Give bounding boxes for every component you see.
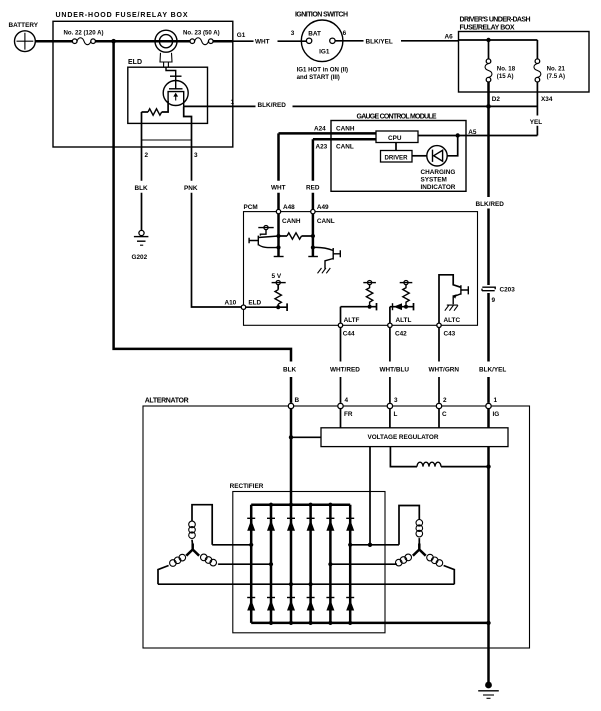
svg-text:B: B [295,397,300,404]
svg-text:X34: X34 [541,96,553,103]
CANH internal line + terminator [274,214,284,257]
svg-text:DRIVER: DRIVER [385,154,409,161]
svg-text:CPU: CPU [388,135,402,142]
svg-text:WHT/RED: WHT/RED [330,366,360,373]
svg-text:C42: C42 [395,331,407,338]
regulator sense wire to stator phase [369,447,371,545]
ground G202 [132,230,149,261]
svg-text:No. 21: No. 21 [547,66,566,73]
wires terminals to regulator [341,409,440,428]
terminal 4 FR [338,397,353,418]
wire WHT to ignition [233,39,307,46]
right stator coil right branch [427,554,455,584]
diode pair column 6 [346,505,354,623]
phase node col6 [348,543,352,547]
fuse No.22 (120 A) [64,29,104,44]
ELD leg to terminal 3 [184,106,192,147]
node A24 / CANH wire [279,126,377,134]
DRIVER box [381,143,413,163]
svg-text:(15 A): (15 A) [497,73,514,80]
svg-text:BLK/RED: BLK/RED [476,201,505,208]
CAN termination resistor [279,233,313,239]
diode pair column 1 [247,505,255,623]
svg-text:2: 2 [443,397,447,404]
terminal B [288,397,299,408]
svg-text:and START (III): and START (III) [297,74,340,81]
wire PNK from ELD 3 to PCM A10 [184,147,242,307]
wire CPU to A5 and YEL corner [418,135,537,137]
svg-text:C203: C203 [500,287,516,294]
svg-text:RECTIFIER: RECTIFIER [230,483,264,490]
svg-text:D2: D2 [492,96,501,103]
diode pair column 4 [307,505,315,623]
svg-text:3: 3 [291,30,295,37]
CANH driver transistor Q [249,226,278,248]
alternator box [143,398,530,648]
node A23 / CANL wire [313,139,376,150]
svg-text:A10: A10 [225,300,237,307]
svg-text:WHT/BLU: WHT/BLU [380,366,410,373]
svg-text:C: C [442,411,447,418]
svg-text:PCM: PCM [244,204,258,211]
node D2 [489,82,501,103]
top bus junction nodes [269,503,333,507]
junction node indicator tap [456,133,460,137]
terminal A48 [276,204,301,225]
gauge control module box [331,113,466,191]
phase wire left stator to column2 [219,563,271,565]
svg-text:A49: A49 [317,204,329,211]
svg-text:A24: A24 [314,126,326,133]
svg-text:YEL: YEL [530,119,543,126]
alternator case ground [478,648,499,698]
ALTC driver transistor Q [439,275,468,323]
wire BLK/RED pin 1 to D2 junction [208,99,539,109]
svg-text:G202: G202 [132,254,148,261]
svg-text:IG1 HOT in ON (II): IG1 HOT in ON (II) [297,66,348,73]
svg-text:3: 3 [394,397,398,404]
wire WHT/GRN C43 to C [429,328,460,403]
svg-text:C44: C44 [343,331,355,338]
svg-text:BLK: BLK [135,185,149,192]
svg-text:BLK: BLK [283,367,297,374]
ELD current-sensor toroid [155,30,177,67]
phase wire left stator to column1 [212,544,251,546]
CANL receiver transistor Q [313,247,340,273]
terminal A10 / ELD input [225,300,288,312]
diode pair column 3 [287,505,295,623]
junction node D2 trunk [486,104,491,109]
node X34 + wire YEL [530,82,553,136]
svg-text:CANH: CANH [336,126,355,133]
svg-text:(7.5 A): (7.5 A) [547,73,565,80]
terminal 3 L [387,397,398,418]
phase wire column6 to right stator [350,544,399,546]
left stator staircase wire [192,505,212,545]
svg-text:INDICATOR: INDICATOR [421,184,456,191]
left stator coil right branch [201,554,219,566]
svg-text:CANL: CANL [317,218,335,225]
wire RED CANL down to PCM [306,139,320,209]
wire fuse22 to fuse23 [95,40,190,43]
field coil L rotor [390,447,488,467]
terminal C42 [388,317,412,337]
terminal C43 [437,317,461,337]
svg-text:FUSE/RELAY BOX: FUSE/RELAY BOX [460,24,515,31]
svg-text:ALTF: ALTF [344,317,360,324]
svg-text:5 V: 5 V [272,273,282,280]
rectifier bottom bus [251,622,488,625]
wire BLK from ELD 2 to G202 [135,147,149,230]
svg-text:BLK/RED: BLK/RED [258,102,287,109]
svg-text:ELD: ELD [128,59,142,66]
rectifier box [230,483,385,633]
terminal 1 IG [486,397,499,418]
phase node col1 [249,543,253,547]
fuse No.18 (15 A) [485,40,516,82]
junction node B tap [289,435,293,439]
svg-text:IG1: IG1 [319,49,330,56]
svg-text:A5: A5 [468,129,477,136]
phase node col2 [269,562,273,566]
wire battery to fuse box [35,40,72,43]
svg-text:6: 6 [343,30,347,37]
svg-text:C43: C43 [444,331,456,338]
diode pair column 5 [326,505,334,623]
svg-text:No. 23 (50 A): No. 23 (50 A) [183,29,220,36]
svg-text:BLK/YEL: BLK/YEL [366,38,393,45]
ignition switch [291,12,348,81]
charging system indicator lamp [412,138,458,192]
battery [9,22,39,52]
svg-text:PNK: PNK [184,185,198,192]
wire BLK/YEL ignition to A6 [335,38,458,45]
svg-text:A23: A23 [316,143,328,150]
wire WHT/RED C44 to FR [330,328,360,403]
svg-text:A48: A48 [283,204,295,211]
trunk BLK/RED label [476,103,505,285]
svg-text:A6: A6 [445,33,454,40]
svg-text:BLK/YEL: BLK/YEL [479,367,506,374]
diode pair column 2 [267,505,275,623]
svg-text:VOLTAGE REGULATOR: VOLTAGE REGULATOR [368,434,439,441]
svg-text:DRIVER'S UNDER-DASH: DRIVER'S UNDER-DASH [460,17,531,24]
ELD leg to terminal 2 [141,112,143,147]
phase wire lower to columns 3 and 4 [158,583,454,585]
ELD terminal 1 wire [184,105,208,107]
svg-text:BATTERY: BATTERY [9,22,39,29]
svg-text:1: 1 [494,397,498,404]
main battery trunk down-left [114,41,297,403]
svg-text:SYSTEM: SYSTEM [421,177,447,184]
fuse No.21 (7.5 A) [534,40,566,82]
wire B down to rectifier [290,409,293,505]
ELD resistor [142,101,169,115]
svg-text:UNDER-HOOD FUSE/RELAY BOX: UNDER-HOOD FUSE/RELAY BOX [56,12,188,19]
bottom bus junction nodes [269,621,491,625]
svg-text:CHARGING: CHARGING [421,169,456,176]
right stator coil left branch [396,554,412,566]
CANL internal line + terminator [308,214,318,257]
ground trunk from regulator [487,447,490,648]
ALTF driver [341,281,377,324]
trunk BLK/YEL to alternator IG [479,293,506,403]
svg-text:ALTL: ALTL [396,317,412,324]
phase wire right stator to column5 [330,563,397,565]
voltage regulator box [321,428,508,447]
left stator Y junction [186,544,199,556]
svg-text:G1: G1 [237,32,246,39]
under-dash internal bus [459,39,538,41]
svg-text:GAUGE CONTROL MODULE: GAUGE CONTROL MODULE [357,113,437,120]
svg-text:No. 18: No. 18 [497,66,516,73]
svg-text:CANL: CANL [336,143,354,150]
svg-text:ELD: ELD [248,300,261,307]
svg-text:IGNITION SWITCH: IGNITION SWITCH [295,12,348,19]
wire B tap to regulator [291,436,321,438]
PCM box [244,204,478,325]
wire fuse23 to G1 [213,40,233,43]
svg-text:3: 3 [194,152,198,159]
svg-text:No. 22 (120 A): No. 22 (120 A) [64,29,104,36]
svg-text:BAT: BAT [308,31,321,38]
svg-text:ALTERNATOR: ALTERNATOR [145,398,189,405]
ELD box [128,59,208,123]
svg-text:FR: FR [344,411,353,418]
junction node field coil [486,464,490,468]
right stator Y junction [413,544,426,556]
driver's under-dash fuse/relay box [459,17,590,93]
wire WHT CANH down to PCM [271,133,286,209]
svg-text:2: 2 [145,152,149,159]
CPU box [376,131,418,143]
svg-text:9: 9 [492,297,496,304]
terminal C44 [338,317,359,337]
in-line connector C203 pin 9 [482,287,515,305]
5V pull-up [272,273,286,310]
ALTL driver + diode [390,281,414,324]
fuse No.23 (50 A) [183,29,220,44]
under-hood fuse/relay box [53,12,233,147]
right stator staircase wire [399,506,419,545]
junction node sense tap [368,543,372,547]
svg-text:4: 4 [345,397,349,404]
svg-text:1: 1 [231,99,235,106]
wire WHT/BLU C42 to L [380,328,410,403]
svg-text:ALTC: ALTC [444,317,461,324]
terminal A49 [311,204,335,225]
svg-text:WHT: WHT [271,184,286,191]
terminal 2 C [436,397,447,418]
rectifier top bus [251,503,350,506]
ELD connector bar [142,139,192,141]
ELD FET Q [163,67,188,106]
left stator coil left branch [158,554,186,584]
svg-text:CANH: CANH [282,218,301,225]
phase node col5 [328,562,332,566]
junction node battery feed [111,39,116,44]
svg-text:L: L [394,411,398,418]
right stator coil top [416,520,423,547]
svg-text:IG: IG [493,411,500,418]
phase node col3 [289,582,293,586]
svg-text:WHT: WHT [255,39,270,46]
phase node col4 [309,582,313,586]
junction node fuse 18 tap [486,38,490,42]
left stator coil top [189,521,196,546]
svg-text:WHT/GRN: WHT/GRN [429,366,460,373]
svg-text:RED: RED [306,184,320,191]
